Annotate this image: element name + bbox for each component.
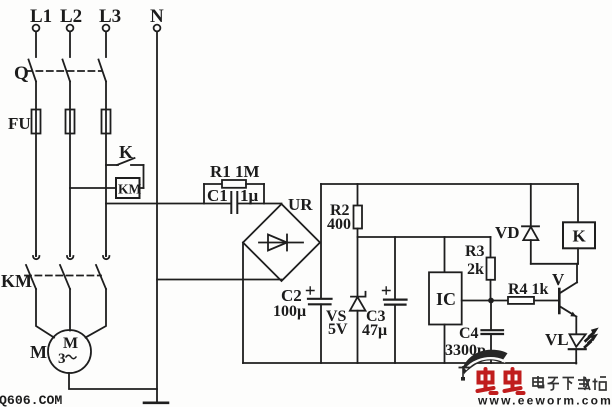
svg-text:400: 400 bbox=[327, 216, 351, 233]
svg-text:1μ: 1μ bbox=[240, 186, 259, 205]
svg-text:C1: C1 bbox=[207, 186, 228, 205]
svg-text:K: K bbox=[573, 227, 587, 246]
svg-text:L3: L3 bbox=[99, 6, 121, 27]
svg-text:3: 3 bbox=[58, 351, 66, 367]
fuse FU3 bbox=[102, 110, 111, 134]
resistor R4 bbox=[491, 297, 558, 304]
wire 5V rail (second bus) bbox=[358, 236, 491, 238]
wire L2 breaker to fuse bbox=[69, 82, 71, 111]
wire top bus (+ rail) bbox=[321, 183, 578, 185]
svg-text:L1: L1 bbox=[30, 6, 52, 27]
watermark chongchong character 2 bbox=[505, 369, 524, 393]
contactor KM main contact 2 hook bbox=[67, 251, 73, 259]
wire motor bottom to N bbox=[69, 373, 157, 389]
capacitor C2 bbox=[308, 299, 332, 305]
fuse FU1 bbox=[32, 110, 41, 134]
wire N to bridge bottom (AC input 2) bbox=[157, 279, 282, 281]
svg-text:100μ: 100μ bbox=[273, 303, 306, 320]
wire phase2 to motor bbox=[69, 289, 71, 331]
node L1 terminal bbox=[30, 6, 52, 31]
C3 plus sign bbox=[383, 287, 391, 294]
contactor KM contact 1 blade bbox=[26, 265, 36, 289]
breaker Q1 pole 2 blade bbox=[63, 60, 71, 82]
watermark chongchong character 1 bbox=[478, 369, 497, 393]
svg-text:VD: VD bbox=[495, 223, 520, 242]
svg-text:FU: FU bbox=[8, 114, 31, 133]
node L3 terminal bbox=[99, 6, 121, 31]
svg-text:V: V bbox=[552, 270, 565, 289]
wire K switch down to KM coil bbox=[140, 165, 144, 188]
svg-text:R1 1M: R1 1M bbox=[210, 162, 260, 181]
resistor R1 bbox=[204, 180, 264, 204]
svg-text:M: M bbox=[30, 342, 47, 362]
LED VL bbox=[569, 334, 586, 363]
svg-text:5V: 5V bbox=[328, 321, 348, 338]
node N terminal bbox=[150, 6, 164, 31]
ground (N earth) bbox=[144, 401, 168, 404]
breaker Q1 pole 3 blade bbox=[99, 60, 107, 82]
wire C3 column upper bbox=[394, 237, 396, 299]
svg-text:IC: IC bbox=[436, 289, 456, 309]
wire phase3 to motor bbox=[86, 289, 107, 338]
resistor R3 bbox=[487, 237, 496, 301]
bridge rectifier UR bbox=[243, 204, 320, 281]
svg-text:C4: C4 bbox=[459, 325, 479, 342]
wire C2 column upper bbox=[320, 184, 322, 299]
diode VD bbox=[522, 184, 539, 264]
motor M bbox=[48, 330, 91, 373]
svg-text:2k: 2k bbox=[467, 261, 484, 278]
transistor V bbox=[559, 264, 577, 334]
contactor KM main contact 3 hook bbox=[103, 251, 109, 259]
watermark graduation cap logo bbox=[459, 350, 508, 381]
contactor KM main contact 1 hook bbox=[33, 251, 39, 259]
svg-text:R3: R3 bbox=[465, 243, 485, 260]
svg-text:Q: Q bbox=[14, 63, 29, 84]
wire L1 drop to breaker bbox=[35, 32, 37, 58]
relay coil K bbox=[563, 184, 595, 264]
breaker Q1 pole 1 blade bbox=[29, 60, 37, 82]
svg-text:UR: UR bbox=[288, 195, 313, 214]
IC U1 bbox=[429, 237, 492, 363]
node L2 terminal bbox=[60, 6, 82, 31]
svg-text:www.eeworm.com: www.eeworm.com bbox=[477, 394, 612, 407]
wire L2 drop to breaker bbox=[69, 32, 71, 58]
wire L1 breaker to fuse bbox=[35, 82, 37, 111]
fuse FU2 bbox=[66, 110, 75, 134]
capacitor C1 bbox=[231, 192, 237, 213]
wire C3 column lower bbox=[394, 305, 396, 363]
svg-text:47μ: 47μ bbox=[362, 322, 387, 339]
wire bus from L3 to bridge top (AC input 1) bbox=[106, 203, 282, 205]
wire L2 to KM coil bbox=[70, 187, 116, 189]
svg-text:R4 1k: R4 1k bbox=[508, 281, 549, 298]
contactor coil KM bbox=[116, 178, 142, 198]
resistor R2 bbox=[354, 184, 363, 297]
svg-text:VL: VL bbox=[545, 330, 569, 349]
wire bridge left vertex down to bottom bus bbox=[242, 243, 244, 364]
node junction R3/C4/R4 bbox=[488, 298, 494, 304]
watermark site name text bbox=[533, 376, 606, 390]
wire phase1 to motor bbox=[36, 289, 54, 338]
svg-text:KM: KM bbox=[118, 182, 142, 197]
contactor KM contact 3 blade bbox=[96, 265, 106, 289]
svg-text:M: M bbox=[63, 335, 78, 352]
breaker Q gang dashed link bbox=[26, 70, 101, 72]
wire L1 fuse to KM contact bbox=[35, 134, 37, 257]
contactor KM gang dashed link bbox=[25, 275, 101, 277]
wire L3 breaker to fuse bbox=[105, 82, 107, 111]
svg-text:Q606.COM: Q606.COM bbox=[0, 393, 62, 407]
wire VD anode / relay / collector node bbox=[531, 263, 578, 265]
wire C2 column lower bbox=[320, 304, 322, 363]
capacitor C4 bbox=[482, 301, 504, 364]
wire L3 drop to breaker bbox=[105, 32, 107, 58]
VL light arrows bbox=[585, 328, 598, 347]
wire bottom bus (- rail) bbox=[243, 362, 576, 364]
C2 plus sign bbox=[307, 287, 315, 294]
switch K (control) bbox=[106, 158, 144, 165]
wire N column full drop bbox=[156, 32, 158, 403]
wire L3 fuse to KM contact bbox=[105, 134, 107, 257]
capacitor C3 bbox=[384, 300, 407, 305]
wire L2 fuse to KM contact bbox=[69, 134, 71, 257]
svg-text:KM: KM bbox=[1, 271, 32, 291]
contactor KM contact 2 blade bbox=[60, 265, 70, 289]
zener diode VS bbox=[350, 292, 366, 363]
